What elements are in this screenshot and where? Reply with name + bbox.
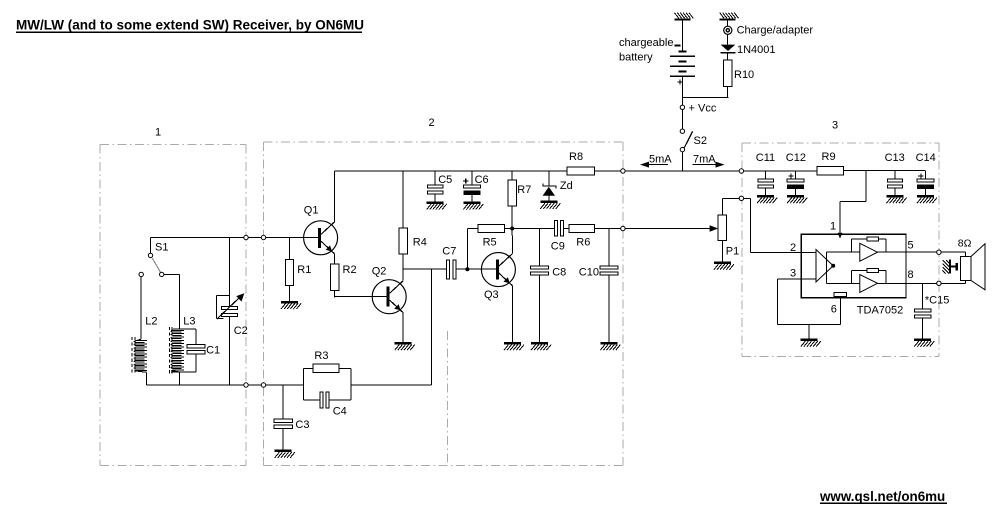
label R8 xyxy=(569,151,583,163)
resistor R5 left lead xyxy=(467,229,478,270)
section box 1 (dashed) xyxy=(100,145,246,466)
inductor L2 xyxy=(132,337,147,375)
label R1 xyxy=(297,264,311,276)
svg-text:Zd: Zd xyxy=(560,180,573,192)
op-amp IC U1 TDA7052 body xyxy=(801,234,906,297)
junction dot R5/R7 xyxy=(510,227,514,231)
svg-text:3: 3 xyxy=(790,268,796,280)
zener diode Zd lead xyxy=(548,171,550,186)
label R6 xyxy=(576,237,590,249)
charge/adapter connector J1 xyxy=(724,26,732,34)
svg-text:3: 3 xyxy=(832,120,838,132)
wire Q1 emitter to R2 xyxy=(334,254,336,264)
zener diode Zd xyxy=(543,183,557,200)
capacitor C10 lead xyxy=(608,229,610,266)
resistor R8 xyxy=(567,167,595,175)
svg-text:1: 1 xyxy=(155,127,161,139)
svg-text:L2: L2 xyxy=(145,316,157,328)
capacitor C9 xyxy=(555,221,564,237)
svg-text:8: 8 xyxy=(908,269,914,281)
wire bottom rail section1 xyxy=(147,384,304,386)
pin label 2 xyxy=(790,242,796,254)
svg-text:chargeable: chargeable xyxy=(619,37,673,49)
svg-text:C7: C7 xyxy=(442,245,456,257)
ground below C3 xyxy=(275,450,295,458)
wire rail2 R7 to C9 xyxy=(512,228,554,230)
svg-text:6: 6 xyxy=(831,304,837,316)
junction dot at input amp apex xyxy=(831,264,835,268)
svg-text:1: 1 xyxy=(830,221,836,233)
capacitor C13 lead xyxy=(894,171,896,179)
node bottom wire at box1 edge xyxy=(244,383,248,387)
wiper arrow into P1 xyxy=(710,225,719,231)
section label 2 xyxy=(429,117,435,129)
ground below R1 xyxy=(281,301,301,309)
capacitor C15 xyxy=(915,309,931,339)
chargeable battery BT1 xyxy=(670,50,695,77)
node top wire at box1 edge xyxy=(244,235,248,239)
label L3 xyxy=(183,316,195,328)
pin 6 stub xyxy=(839,298,841,325)
power rail symbol (inverted ground) above charge connector xyxy=(720,13,739,21)
label C10 xyxy=(579,267,599,279)
svg-text:2: 2 xyxy=(429,117,435,129)
pin label 6 xyxy=(831,304,837,316)
label chargeable battery xyxy=(619,37,673,64)
svg-text:R1: R1 xyxy=(297,264,311,276)
battery plus label xyxy=(677,79,682,84)
wire L3 bottom xyxy=(179,372,181,385)
label 1N4001 xyxy=(737,44,776,56)
svg-text:R9: R9 xyxy=(822,151,836,163)
svg-text:L3: L3 xyxy=(183,316,195,328)
label C4 xyxy=(333,406,347,418)
wire antenna top rail xyxy=(151,237,318,239)
label R3 xyxy=(314,350,328,362)
input amplifier triangle xyxy=(816,250,833,283)
svg-text:C5: C5 xyxy=(438,174,452,186)
wire connector to diode xyxy=(727,34,729,44)
wire R10 bottom xyxy=(682,87,728,98)
svg-text:1N4001: 1N4001 xyxy=(737,44,776,56)
label R7 xyxy=(517,184,531,196)
wire R4 bottom to C7 xyxy=(403,254,447,269)
capacitor C1 xyxy=(171,329,205,372)
wire pin 8 to speaker xyxy=(906,281,966,284)
svg-text:C9: C9 xyxy=(551,240,565,252)
svg-text:MW/LW (and to some extend SW): MW/LW (and to some extend SW) Receiver, … xyxy=(16,18,364,33)
wire pin 5 to speaker xyxy=(906,252,966,256)
switch S1 xyxy=(139,238,164,277)
svg-text:R3: R3 xyxy=(314,350,328,362)
ground below C10 xyxy=(600,342,620,350)
ground below C6 xyxy=(463,201,483,209)
resistor R1 xyxy=(285,259,293,285)
capacitor C8 lead xyxy=(539,229,541,266)
section box 2 (dashed) xyxy=(263,142,623,466)
pin label 5 xyxy=(908,240,914,252)
resistor R10 xyxy=(724,60,732,87)
node + Vcc xyxy=(680,105,684,109)
node rail2 at box2 edge xyxy=(621,226,625,230)
label R5 xyxy=(483,237,497,249)
svg-text:2: 2 xyxy=(790,242,796,254)
section box 3 (dashed) xyxy=(742,143,939,357)
wire S1 to L3 xyxy=(164,274,180,329)
svg-text:TDA7052: TDA7052 xyxy=(857,305,903,317)
label S2 xyxy=(694,135,707,147)
wire pin 3 loop xyxy=(777,279,840,324)
svg-text:5mA: 5mA xyxy=(649,153,672,165)
label C3 xyxy=(295,419,309,431)
wire L2 bottom xyxy=(146,372,148,385)
wire supply rail left segment xyxy=(335,170,567,172)
resistor R4 lead top xyxy=(402,171,404,228)
label C6 xyxy=(475,174,489,186)
label Q3 xyxy=(484,289,499,301)
transistor Q2 xyxy=(372,280,406,314)
label C14 xyxy=(916,152,936,164)
transistor Q1 xyxy=(304,221,338,255)
wire R7 to junction xyxy=(511,206,513,228)
switch S2 xyxy=(680,129,693,152)
label C7 xyxy=(442,245,456,257)
ground below C11 xyxy=(757,195,777,203)
label P1 xyxy=(726,246,739,258)
wire S2 to supply rail xyxy=(681,152,683,171)
wire down to pin 2 xyxy=(751,198,802,252)
wire battery top xyxy=(681,20,683,51)
wire block to stub xyxy=(351,384,432,386)
label C8 xyxy=(552,267,566,279)
transistor Q3 xyxy=(481,253,515,287)
capacitor C11 lead xyxy=(765,171,767,179)
wire lower amp output pin 8 xyxy=(878,282,906,284)
capacitor C6 (electrolytic) xyxy=(463,178,480,201)
svg-text:R5: R5 xyxy=(483,237,497,249)
wire R6 to P1 xyxy=(595,228,711,230)
resistor R4 xyxy=(399,228,407,254)
variable capacitor C2 xyxy=(216,293,244,319)
label C1 xyxy=(206,345,220,357)
label C12 xyxy=(786,152,806,164)
wire supply rail middle segment xyxy=(594,170,817,172)
capacitor C4 branch xyxy=(304,392,351,408)
label Zd xyxy=(560,180,573,192)
node pin8 at box3 edge xyxy=(937,281,941,285)
wire battery bottom to junction xyxy=(681,77,683,98)
label R2 xyxy=(343,264,357,276)
svg-text:C12: C12 xyxy=(786,152,806,164)
speaker LS1 8 ohm xyxy=(960,244,985,290)
svg-text:7mA: 7mA xyxy=(693,153,716,165)
wire Q1 collector to rail xyxy=(334,171,336,222)
label C11 xyxy=(756,152,775,164)
label Q2 xyxy=(372,266,387,278)
ground below Q3 xyxy=(504,342,524,350)
resistor R2 xyxy=(330,264,338,291)
resistor R6 xyxy=(569,224,594,232)
svg-text:R10: R10 xyxy=(734,69,754,81)
ground below C14 xyxy=(917,195,937,203)
label C2 xyxy=(234,325,248,337)
pin label 3 xyxy=(790,268,796,280)
node pin5 at box3 edge xyxy=(937,250,941,254)
resistor R5 xyxy=(478,224,504,232)
current label 5mA with arrow xyxy=(640,153,672,167)
wire C2 bottom lead xyxy=(229,316,231,385)
capacitor C12 (electrolytic) xyxy=(787,173,804,195)
svg-text:www.qsl.net/on6mu: www.qsl.net/on6mu xyxy=(819,489,945,504)
wire S1 left contact to L2 xyxy=(140,277,142,340)
diode D1 1N4001 xyxy=(721,45,736,54)
ground below TDA7052 xyxy=(801,339,821,347)
lower feedback resistor xyxy=(852,268,887,283)
wire pin 2 inside xyxy=(801,251,816,253)
svg-text:C13: C13 xyxy=(885,152,905,164)
resistor R7 lead xyxy=(511,171,513,180)
wire supply rail right segment xyxy=(843,170,925,172)
speaker magnet mount xyxy=(943,260,958,274)
wire to IC ground xyxy=(808,324,810,338)
svg-text:R8: R8 xyxy=(569,151,583,163)
pin label 1 xyxy=(830,221,836,233)
power rail symbol (inverted ground) above battery xyxy=(674,13,693,21)
svg-text:C14: C14 xyxy=(916,152,936,164)
wire C2 top lead xyxy=(229,238,231,307)
wire Q2 emitter down xyxy=(402,313,404,342)
node bottom wire at box2 edge xyxy=(261,383,265,387)
svg-text:Q2: Q2 xyxy=(372,266,387,278)
section label 3 xyxy=(832,120,838,132)
wire Q3 collector up xyxy=(511,229,513,254)
ground below P1 xyxy=(714,262,734,270)
svg-text:5: 5 xyxy=(908,240,914,252)
section label 1 xyxy=(155,127,161,139)
junction dot R5/C7/Q3 base xyxy=(465,267,469,271)
svg-text:C11: C11 xyxy=(756,152,775,164)
svg-text:C8: C8 xyxy=(552,267,566,279)
potentiometer P1 xyxy=(718,215,726,240)
ground below C8 xyxy=(531,342,551,350)
label TDA7052 xyxy=(857,305,903,317)
ground below C12 xyxy=(787,195,807,203)
ground below Q2 xyxy=(395,342,415,350)
svg-text:C4: C4 xyxy=(333,406,347,418)
label 8 ohm xyxy=(958,238,972,250)
node top wire at box2 edge xyxy=(261,235,265,239)
capacitor C10 xyxy=(600,266,618,342)
wire upper amp output pin 5 xyxy=(878,251,906,253)
capacitor C12 lead xyxy=(795,171,797,179)
svg-text:C2: C2 xyxy=(234,325,248,337)
wire to upper amp input xyxy=(827,251,860,253)
svg-text:S2: S2 xyxy=(694,135,707,147)
label R10 xyxy=(734,69,754,81)
resistor R1 lead xyxy=(289,238,291,260)
capacitor C15 lead xyxy=(922,283,924,309)
upper feedback resistor xyxy=(852,237,887,252)
capacitor C8 xyxy=(530,266,548,342)
svg-text:R7: R7 xyxy=(517,184,531,196)
label C13 xyxy=(885,152,905,164)
capacitor C14 lead xyxy=(924,171,926,179)
capacitor C13 xyxy=(887,179,902,195)
label Q1 xyxy=(304,205,319,217)
svg-text:R2: R2 xyxy=(343,264,357,276)
wire Q3 emitter down xyxy=(511,286,513,342)
label L2 xyxy=(145,316,157,328)
wire connector top xyxy=(727,20,729,26)
svg-text:C3: C3 xyxy=(295,419,309,431)
capacitor C6 lead xyxy=(471,171,473,185)
wire R3C4 block right xyxy=(350,368,352,400)
resistor R3 branch xyxy=(304,364,351,372)
wire junction to Vcc node xyxy=(681,98,683,106)
wire P1 bottom to ground xyxy=(721,241,723,262)
capacitor C14 (electrolytic) xyxy=(917,173,934,195)
pin 1 feed from rail xyxy=(840,171,866,236)
svg-text:battery: battery xyxy=(619,52,653,64)
capacitor C5 lead xyxy=(434,171,436,185)
upper amplifier triangle xyxy=(860,243,878,261)
wire R1 to ground xyxy=(289,285,291,301)
label Charge/adapter xyxy=(737,25,814,37)
ground below C15 xyxy=(914,339,934,347)
ground below Zd xyxy=(540,201,560,209)
lower amplifier triangle xyxy=(860,275,878,293)
label C9 xyxy=(551,240,565,252)
capacitor C11 xyxy=(758,179,773,195)
inductor L3 xyxy=(169,327,184,375)
node P1 feed at box3 edge xyxy=(739,196,743,200)
wire diode to R10 xyxy=(727,53,729,60)
wire C7 to Q3 base xyxy=(456,268,496,270)
pin 1 arrow xyxy=(838,233,843,239)
node rail at box3 edge xyxy=(739,169,743,173)
wire Q2 collector up xyxy=(402,269,404,281)
wire C9 to R6 xyxy=(564,228,570,230)
svg-text:R6: R6 xyxy=(576,237,590,249)
link www.qsl.net/on6mu xyxy=(819,489,947,504)
svg-text:Q3: Q3 xyxy=(484,289,499,301)
label C5 xyxy=(438,174,452,186)
svg-text:8Ω: 8Ω xyxy=(958,238,972,250)
node rail at box2 edge xyxy=(621,169,625,173)
svg-text:Q1: Q1 xyxy=(304,205,319,217)
svg-text:C10: C10 xyxy=(579,267,599,279)
wire R3C4 block left xyxy=(303,368,305,400)
wire Vcc node to S2 xyxy=(681,109,683,129)
pin label 8 xyxy=(908,269,914,281)
svg-text:P1: P1 xyxy=(726,246,739,258)
wire feedback stub down xyxy=(431,269,433,385)
battery minus label xyxy=(675,45,681,47)
label *C15 xyxy=(925,295,949,307)
svg-text:+ Vcc: + Vcc xyxy=(689,103,717,115)
wire pin 3 inside xyxy=(801,278,816,280)
resistor R9 xyxy=(817,166,843,174)
svg-text:Charge/adapter: Charge/adapter xyxy=(737,25,814,37)
wire P1 top to pin2 path xyxy=(722,198,750,215)
ground below C13 xyxy=(887,195,907,203)
label R4 xyxy=(413,236,427,248)
current label 7mA with arrow xyxy=(693,153,725,167)
ground below C5 xyxy=(427,201,447,209)
resistor R7 xyxy=(508,180,516,206)
svg-text:C1: C1 xyxy=(206,345,220,357)
pin 6 block xyxy=(834,293,847,297)
svg-text:R4: R4 xyxy=(413,236,427,248)
capacitor C7 xyxy=(447,260,457,279)
title text xyxy=(16,18,364,33)
wire R2 to Q2 base xyxy=(335,290,387,297)
svg-text:*C15: *C15 xyxy=(925,295,949,307)
capacitor C3 xyxy=(274,419,292,449)
wire R5 right lead xyxy=(505,228,513,230)
capacitor C5 xyxy=(427,185,443,201)
label R9 xyxy=(822,151,836,163)
label + Vcc xyxy=(689,103,717,115)
svg-text:S1: S1 xyxy=(155,242,168,254)
capacitor C3 lead xyxy=(282,385,284,419)
internal bus vertical xyxy=(826,252,828,283)
label S1 xyxy=(155,242,168,254)
svg-text:C6: C6 xyxy=(475,174,489,186)
section box 2 internal divider (dashed) xyxy=(447,331,449,466)
wire to lower amp input xyxy=(827,282,860,284)
